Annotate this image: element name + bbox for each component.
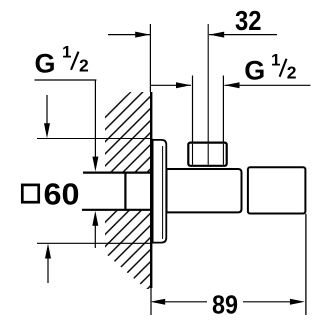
- G1/2 left leader vertical: [94, 80, 96, 160]
- G1/2 right arrow right-pointing: [176, 82, 191, 88]
- extension line wall surface up (for 32 dim): [149, 24, 151, 92]
- escutcheon flange: [153, 140, 167, 243]
- dim 32 line right segment: [209, 34, 277, 36]
- svg-text:G: G: [35, 49, 56, 79]
- dim 89 arrow right-pointing: [290, 299, 305, 305]
- dim 32 arrow right-pointing: [135, 32, 150, 38]
- escutcheon inner edge line: [162, 146, 164, 239]
- square symbol: [22, 185, 38, 202]
- centerline inside nut: [207, 144, 209, 165]
- svg-text:32: 32: [235, 5, 262, 36]
- dim 60 down arrow: [46, 95, 48, 127]
- supply pipe bore top line: [83, 172, 151, 174]
- supply pipe bore bottom line: [82, 209, 151, 211]
- valve body: [167, 169, 242, 212]
- extension line wall surface down (for 89 dim): [150, 288, 152, 315]
- dimension ext line bottom of flange (60): [37, 242, 153, 244]
- svg-text:1: 1: [271, 51, 280, 70]
- svg-text:89: 89: [212, 290, 238, 320]
- G1/2 left leader underline: [35, 79, 97, 81]
- extension line outlet block down (for 89 dim): [305, 214, 307, 315]
- G1/2 right dim line left segment: [150, 84, 191, 86]
- svg-text:1: 1: [62, 43, 71, 62]
- outlet block right: [248, 167, 306, 213]
- svg-text:2: 2: [287, 63, 297, 83]
- dim 89 line left segment: [163, 301, 207, 303]
- centerline of top outlet: [207, 24, 209, 167]
- top outlet pipe left edge: [192, 76, 194, 167]
- svg-text:2: 2: [79, 56, 89, 76]
- svg-text:60: 60: [44, 176, 80, 211]
- valve tail end cap: [124, 172, 126, 211]
- top outlet nut: [188, 143, 226, 166]
- G1/2 left arrow down-pointing: [92, 157, 98, 172]
- dim 89 arrow left-pointing: [150, 299, 165, 305]
- dim 89 line right segment: [243, 301, 292, 303]
- wall surface line: [150, 92, 152, 288]
- G1/2 right arrow left-pointing: [225, 82, 240, 88]
- top outlet pipe right edge: [222, 76, 224, 167]
- dimension ext line top of flange (60): [37, 138, 153, 140]
- wall hatching lower: [105, 211, 152, 290]
- pipe edges inside nut: [192, 144, 194, 165]
- dim 60 up arrow: [47, 255, 49, 283]
- svg-text:G: G: [244, 55, 265, 85]
- dim 32 line left segment: [108, 34, 150, 36]
- dim 32 arrow left-pointing: [209, 32, 224, 38]
- wall hatching upper: [105, 92, 152, 172]
- opposing arrow up-pointing at pipe bottom: [94, 222, 96, 248]
- G1/2 right dim line right segment: [225, 84, 311, 86]
